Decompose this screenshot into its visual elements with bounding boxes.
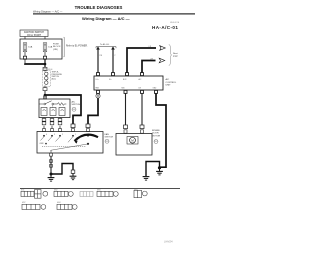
svg-text:M58: M58 [154,141,157,143]
svg-text:IGNITION SWITCH: IGNITION SWITCH [24,32,44,34]
svg-text:BLOCK: BLOCK [53,46,61,48]
svg-text:INTAKE: INTAKE [152,129,160,132]
svg-text:Wiring Diagram — A/C —: Wiring Diagram — A/C — [33,10,63,14]
svg-text:Wiring Diagram — A/C —: Wiring Diagram — A/C — [82,16,130,21]
svg-text:M30: M30 [72,109,75,111]
svg-text:LHA094: LHA094 [164,241,173,244]
svg-text:A/C: A/C [72,100,76,103]
svg-text:CONTROL: CONTROL [166,82,177,84]
svg-text:(J/B): (J/B) [53,49,58,51]
svg-text:page: page [173,56,179,58]
svg-text:1: 1 [75,134,76,136]
svg-text:A/C: A/C [166,78,170,81]
svg-text:M44: M44 [57,202,61,204]
svg-text:DOOR: DOOR [152,133,159,135]
svg-text:(A/C): (A/C) [52,78,57,81]
svg-text:Next: Next [173,52,178,55]
svg-text:ILL+: ILL+ [96,79,99,81]
svg-text:MOTOR: MOTOR [152,135,161,137]
svg-text:Refer to EL-POWER.: Refer to EL-POWER. [66,45,88,48]
svg-text:M33: M33 [105,141,108,143]
svg-text:FUSE: FUSE [53,44,59,46]
svg-text:MHA187A: MHA187A [170,21,180,24]
svg-text:M58: M58 [134,190,138,192]
svg-text:P/B: P/B [100,55,103,57]
svg-text:SWITCH: SWITCH [105,137,114,139]
svg-text:ON or START: ON or START [27,34,42,37]
svg-text:SWITCH: SWITCH [72,104,81,106]
svg-text:FAN: FAN [105,133,110,136]
svg-text:3: 3 [54,134,55,136]
svg-text:4: 4 [46,134,47,136]
svg-text:OFF: OFF [40,143,45,145]
svg-text:To EL-ILL: To EL-ILL [100,44,110,46]
svg-text:ILL-: ILL- [109,79,112,81]
svg-text:TROUBLE DIAGNOSES: TROUBLE DIAGNOSES [75,5,123,10]
svg-text:M37: M37 [22,202,26,204]
svg-text:2: 2 [62,134,63,136]
svg-text:P: P [115,55,116,57]
svg-text:UNIT: UNIT [166,85,172,87]
svg-text:10A: 10A [28,46,32,49]
svg-text:HA-A/C-01: HA-A/C-01 [152,25,178,30]
